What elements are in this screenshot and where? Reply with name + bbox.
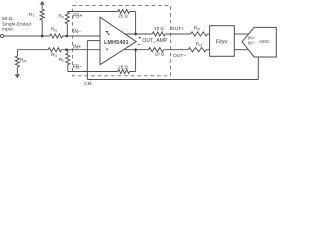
svg-text:CM: CM	[84, 81, 91, 86]
dashed EVM/device boundary box	[72, 6, 170, 76]
svg-text:RO: RO	[196, 42, 202, 48]
svg-text:OUT+: OUT+	[171, 26, 184, 32]
op-amp U1 LMH5401 fully-differential amplifier	[100, 17, 136, 64]
resistor 10 Ohm (upper)	[152, 32, 165, 36]
svg-text:IN−: IN−	[248, 41, 256, 46]
svg-text:FB+: FB+	[73, 14, 83, 20]
resistor RF (upper feedback)	[66, 24, 68, 36]
wire CM horizontal	[87, 79, 258, 81]
amp output - mark	[138, 43, 140, 45]
wire RF2 to FB-	[67, 65, 69, 72]
resistor RG (lower gain resistor)	[48, 48, 61, 52]
wire OUT+	[165, 33, 190, 35]
wire 25 Ohm to rise	[130, 71, 136, 73]
wire FB- feedback	[68, 71, 118, 73]
wire RO1 to filter	[207, 33, 209, 35]
svg-text:RO: RO	[194, 26, 200, 32]
resistor 25 Ohm (upper, on-chip)	[118, 10, 130, 14]
input port	[0, 34, 3, 37]
svg-text:10 Ω: 10 Ω	[154, 26, 164, 31]
amp lower input mark	[106, 48, 108, 50]
wire OUT-	[164, 49, 188, 51]
svg-text:RG: RG	[51, 52, 57, 58]
wire RO2 to filter	[206, 49, 209, 51]
svg-text:25 Ω: 25 Ω	[118, 64, 128, 69]
node IN+ summing junction	[65, 48, 68, 51]
svg-text:RF: RF	[59, 57, 65, 63]
svg-text:RF: RF	[58, 13, 64, 19]
node OUT+ junction	[134, 33, 137, 36]
resistor RO (upper)	[191, 32, 208, 36]
amp output + mark	[139, 37, 141, 39]
wire CM to ADC VCM	[257, 57, 259, 80]
wire CM vertical	[86, 41, 88, 80]
resistor RM zigzag	[15, 56, 19, 67]
CM pin wire	[87, 40, 100, 42]
wire 25 Ohm to drop	[130, 11, 136, 13]
ground arrow	[15, 74, 21, 78]
resistor RM (to ground)	[16, 50, 18, 56]
wire lower input	[17, 49, 48, 51]
wire filter to ADC IN-	[234, 49, 248, 51]
wire lower output	[124, 49, 149, 51]
node IN- summing junction	[65, 35, 68, 38]
svg-text:FB−: FB−	[73, 64, 83, 70]
wire feedback drop to OUT+ node	[135, 12, 137, 35]
resistor RF2 zigzag	[66, 53, 70, 65]
svg-text:LMH5401: LMH5401	[104, 40, 129, 46]
resistor RF (lower feedback)	[67, 50, 69, 54]
svg-text:RT: RT	[29, 12, 35, 18]
wire input to RG1	[3, 35, 50, 37]
filter block	[210, 26, 235, 57]
wire upper output	[125, 33, 152, 35]
rail arrow up	[40, 1, 45, 5]
resistor 10 Ohm (lower)	[148, 48, 163, 52]
resistor RG (upper gain resistor)	[50, 34, 63, 38]
node OUT- junction	[134, 48, 137, 51]
wire feedback rise to OUT- node	[135, 50, 137, 72]
svg-text:RM: RM	[20, 57, 26, 63]
svg-text:10 Ω: 10 Ω	[155, 52, 165, 57]
resistor RO (lower)	[188, 48, 206, 52]
svg-text:IN+: IN+	[248, 35, 256, 40]
svg-text:Filter: Filter	[216, 39, 228, 45]
node input termination junction	[41, 35, 44, 38]
svg-text:25 Ω: 25 Ω	[118, 14, 128, 19]
svg-text:OUT−: OUT−	[173, 53, 186, 59]
svg-text:Input: Input	[2, 26, 13, 32]
svg-text:ADC: ADC	[259, 39, 270, 45]
wire RM to ground	[16, 67, 18, 74]
resistor 25 Ohm (lower, on-chip)	[118, 70, 130, 74]
svg-text:OUT_AMP: OUT_AMP	[142, 38, 168, 44]
svg-text:RG: RG	[51, 26, 57, 32]
wire to IN- pin	[63, 35, 100, 37]
svg-text:IN−: IN−	[73, 29, 81, 35]
amp upper input mark	[105, 31, 109, 34]
wire filter to ADC IN+	[234, 33, 248, 35]
wire RT to arrow	[41, 4, 43, 9]
ADC block	[242, 27, 276, 57]
wire to IN+ pin	[62, 49, 101, 51]
resistor RF1 zigzag	[65, 12, 69, 24]
resistor RT (termination)	[41, 20, 43, 36]
resistor RT zigzag	[40, 9, 44, 20]
wire FB+ feedback	[67, 11, 118, 13]
svg-text:50-Ω,: 50-Ω,	[2, 16, 14, 22]
